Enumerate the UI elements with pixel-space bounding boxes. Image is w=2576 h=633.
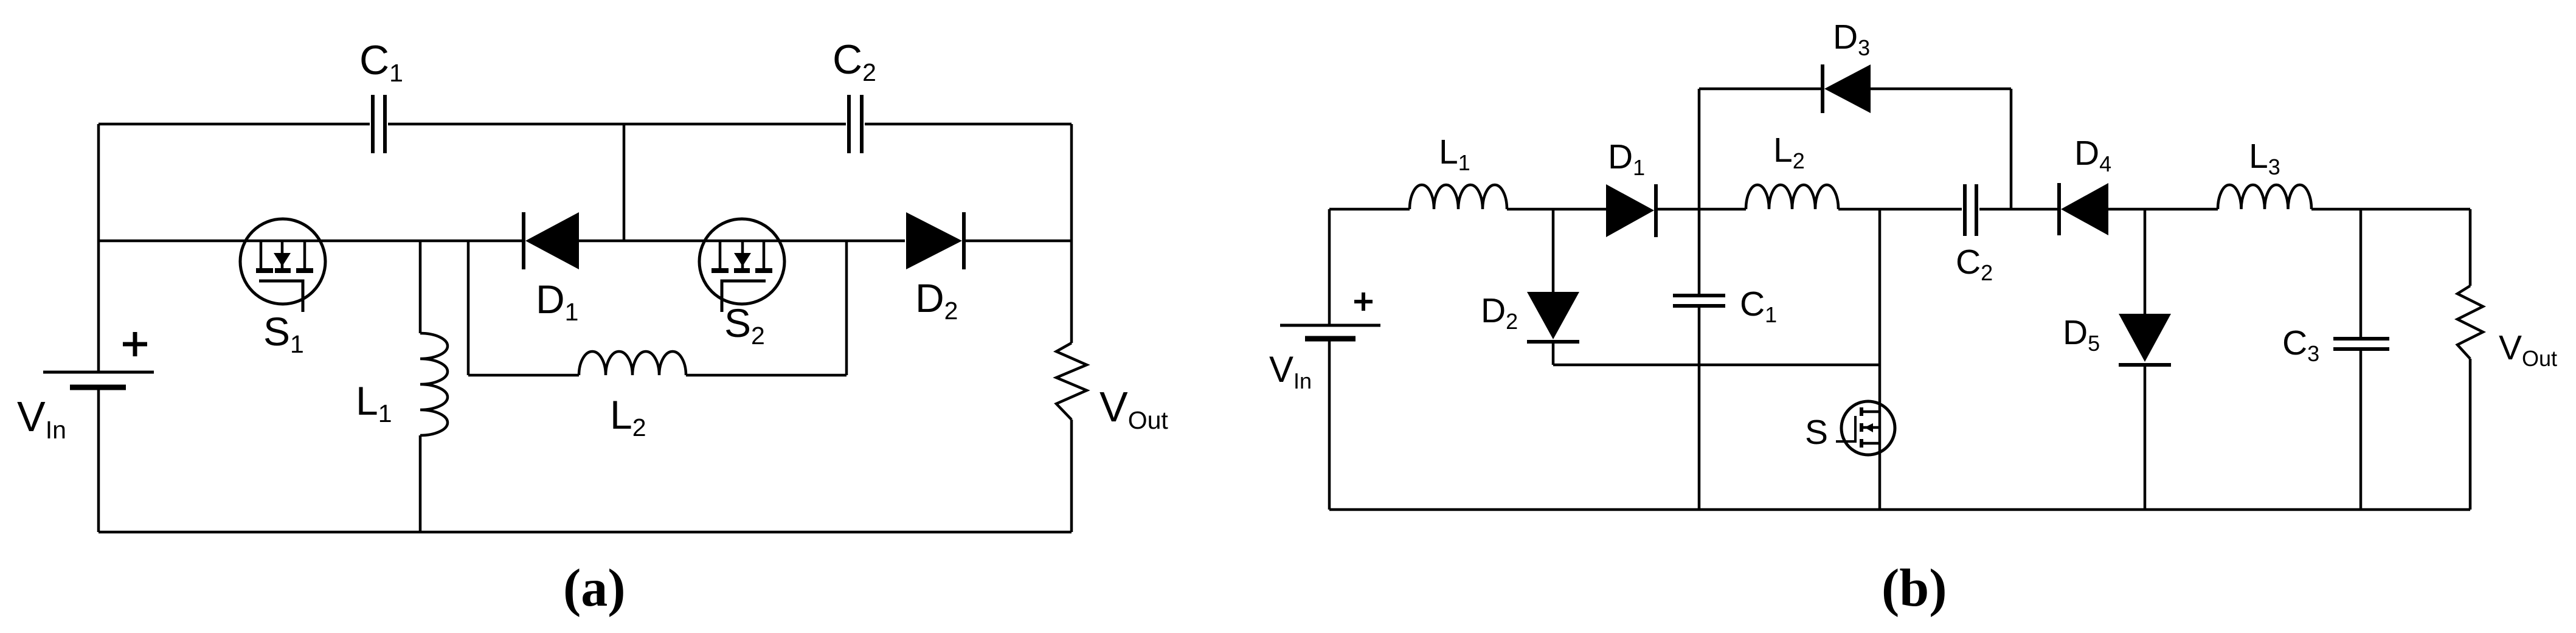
transistor S bottom contact bar xyxy=(1860,439,1863,448)
wire: node C1-D1 vertical xyxy=(623,124,626,241)
svg-text:L2: L2 xyxy=(1773,131,1805,173)
svg-text:VIn: VIn xyxy=(17,393,66,444)
svg-text:VIn: VIn xyxy=(1269,349,1312,393)
svg-text:L2: L2 xyxy=(610,392,646,441)
wire: top rail right of C2 xyxy=(865,123,1072,126)
transistor S2 left contact bar xyxy=(712,268,729,273)
diode D2 cathode bar xyxy=(962,212,966,269)
wire: D3 branch left vertical xyxy=(1698,89,1701,209)
wire: right rail lower xyxy=(2469,359,2472,510)
wire: C3 branch upper xyxy=(2360,209,2363,337)
wire: top rail C1 to C2 xyxy=(388,123,846,126)
svg-text:L1: L1 xyxy=(1439,133,1470,175)
capacitor C1 xyxy=(373,95,385,153)
inductor L2 coil xyxy=(579,351,686,375)
battery VIn plate short xyxy=(70,385,126,390)
wire: D3 branch right vertical xyxy=(2010,89,2013,209)
transistor S source stub bottom xyxy=(1863,442,1880,445)
battery VIn plate long xyxy=(1280,324,1380,327)
wire: inductor L1 lead lower xyxy=(419,435,422,532)
wire: bottom rail xyxy=(99,531,1072,534)
svg-text:D3: D3 xyxy=(1833,18,1870,60)
diode D2 anode bar xyxy=(1527,340,1579,344)
capacitor C3 xyxy=(2333,339,2389,349)
capacitor C2 xyxy=(849,95,862,153)
svg-text:D2: D2 xyxy=(1481,291,1518,334)
transistor S2 body arrow head xyxy=(734,253,751,266)
battery VIn plate short xyxy=(1305,336,1356,342)
wire: C3 branch lower xyxy=(2360,351,2363,510)
diode D4 triangle xyxy=(2061,183,2108,235)
plus sign of VIn source xyxy=(1354,292,1373,311)
resistor VOut load xyxy=(1056,343,1087,420)
transistor S1 drain stub left xyxy=(260,241,263,268)
transistor S2 middle contact bar xyxy=(734,268,750,273)
wire: D2 branch upper xyxy=(1552,209,1555,292)
diode D1 triangle xyxy=(525,212,579,269)
wire: main rail D4 to L3 xyxy=(2108,208,2218,211)
svg-text:D5: D5 xyxy=(2063,313,2100,356)
wire: D5 branch upper xyxy=(2144,209,2147,314)
inductor L3 coil xyxy=(2218,185,2311,209)
wire: main rail D1 to L2 xyxy=(1658,208,1746,211)
svg-text:C3: C3 xyxy=(2282,323,2319,366)
svg-text:S1: S1 xyxy=(263,309,304,358)
wire: right rail upper xyxy=(1070,124,1073,343)
capacitor C2 xyxy=(1965,184,1976,236)
wire: left rail upper xyxy=(1328,209,1331,325)
transistor S2 gate line xyxy=(722,281,766,312)
transistor S1 left contact bar xyxy=(256,268,273,273)
wire: main rail L3 to right rail xyxy=(2311,208,2470,211)
svg-text:VOut: VOut xyxy=(2499,328,2557,371)
transistor S top contact bar xyxy=(1860,407,1863,416)
svg-text:D4: D4 xyxy=(2074,134,2111,176)
wire: main rail D1 to S2 xyxy=(579,240,905,243)
wire: main rail L1 to D1 xyxy=(1507,208,1606,211)
plus sign of VIn source xyxy=(123,332,147,356)
svg-text:C1: C1 xyxy=(359,37,403,87)
transistor S1 source stub right xyxy=(303,241,306,268)
wire: switch branch vertical xyxy=(1878,209,1882,510)
transistor S1 body arrow stem xyxy=(281,242,284,268)
svg-text:S2: S2 xyxy=(724,300,765,350)
transistor S2 source stub left xyxy=(719,241,722,268)
wire: bottom rail xyxy=(1329,508,2470,511)
wire: main rail D2 to right rail xyxy=(966,240,1072,243)
inductor L2 coil xyxy=(1746,185,1838,209)
transistor S1 circle xyxy=(240,219,325,304)
svg-text:S: S xyxy=(1805,413,1828,452)
diode D3 cathode bar xyxy=(1821,64,1824,113)
transistor S gate line xyxy=(1836,416,1855,441)
resistor VOut load xyxy=(2457,286,2483,359)
svg-text:L3: L3 xyxy=(2249,137,2280,179)
svg-text:C2: C2 xyxy=(833,36,876,86)
inductor L1 lead upper xyxy=(419,241,422,333)
wire: main rail to L1 xyxy=(1329,208,1410,211)
svg-text:D2: D2 xyxy=(915,275,958,325)
diode D1 cathode bar xyxy=(522,212,525,269)
transistor S drain stub top xyxy=(1863,410,1880,413)
svg-text:D1: D1 xyxy=(536,277,578,326)
svg-text:(a): (a) xyxy=(563,559,626,618)
wire: C1 branch lower xyxy=(1698,308,1701,510)
wire: D2 branch lower xyxy=(1552,344,1555,365)
wire: main rail C2 to D4 xyxy=(1979,208,2058,211)
wire: left rail lower xyxy=(97,390,100,532)
svg-text:C2: C2 xyxy=(1956,243,1993,285)
diode D5 anode bar xyxy=(2119,363,2171,367)
wire: right rail upper xyxy=(2469,209,2472,286)
transistor S middle contact bar xyxy=(1860,423,1863,432)
transistor S1 middle contact bar xyxy=(275,268,291,273)
transistor S2 right contact bar xyxy=(755,268,772,273)
svg-text:(b): (b) xyxy=(1882,559,1947,618)
capacitor C1 xyxy=(1673,296,1725,306)
wire: L2 branch right horizontal xyxy=(686,374,847,377)
diode D1 triangle xyxy=(1606,184,1654,237)
wire: right rail lower xyxy=(1070,420,1073,532)
transistor S circle xyxy=(1841,401,1895,455)
svg-text:L1: L1 xyxy=(356,378,392,427)
transistor S body arrow stem xyxy=(1863,426,1879,429)
transistor S body arrow head xyxy=(1864,423,1873,432)
transistor S2 circle xyxy=(699,219,784,304)
svg-text:VOut: VOut xyxy=(1099,383,1168,434)
transistor S1 gate line xyxy=(259,281,303,312)
transistor S1 body arrow head xyxy=(274,253,291,266)
transistor S2 body arrow stem xyxy=(741,242,744,268)
wire: C1 branch upper xyxy=(1698,209,1701,294)
diode D2 triangle xyxy=(1527,292,1579,339)
inductor L1 coil xyxy=(1410,185,1507,209)
inductor L1 coil xyxy=(420,333,448,435)
wire: D2 to switch node horizontal xyxy=(1553,364,1880,367)
diode D5 triangle xyxy=(2119,314,2171,362)
diode D3 triangle xyxy=(1824,64,1871,113)
svg-text:C1: C1 xyxy=(1740,285,1777,327)
wire: L2 branch left vertical xyxy=(467,241,470,375)
diode D2 triangle xyxy=(906,212,962,269)
wire: top rail left of C1 xyxy=(99,123,370,126)
wire: D3 rail right xyxy=(1871,88,2011,91)
diode D1 cathode bar xyxy=(1654,184,1658,237)
diode D4 cathode bar xyxy=(2057,183,2061,235)
wire: main rail L2 to C2 xyxy=(1838,208,1962,211)
wire: left rail lower xyxy=(1328,341,1331,510)
svg-text:D1: D1 xyxy=(1608,137,1645,180)
wire: D3 rail left xyxy=(1699,88,1821,91)
wire: L2 branch left horizontal xyxy=(468,374,579,377)
wire: left rail upper xyxy=(97,124,100,372)
transistor S1 right contact bar xyxy=(296,268,313,273)
wire: L2 branch right vertical xyxy=(845,241,848,375)
battery VIn plate long xyxy=(43,371,154,374)
wire: main rail left segment through S1 xyxy=(99,240,522,243)
wire: D5 branch lower xyxy=(2144,367,2147,510)
transistor S2 drain stub right xyxy=(763,241,766,268)
